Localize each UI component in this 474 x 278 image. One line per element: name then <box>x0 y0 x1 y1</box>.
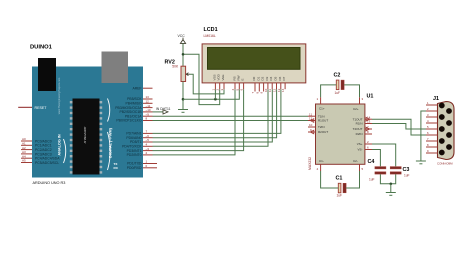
wire VS- to C4 <box>372 150 380 167</box>
U1 right pin numbers <box>367 115 371 149</box>
svg-text:www.TheEngineeringProjects.com: www.TheEngineeringProjects.com <box>58 78 61 114</box>
svg-text:C1: C1 <box>336 176 343 182</box>
capacitor C3 <box>390 167 409 178</box>
U1 left pin stubs <box>308 116 316 132</box>
wire ground rail to VSS and RW <box>183 89 239 99</box>
svg-text:1uF: 1uF <box>404 174 410 178</box>
svg-text:C1-: C1- <box>319 159 324 163</box>
svg-text:C2: C2 <box>334 73 341 79</box>
wire VS+ to C3 <box>372 144 396 166</box>
svg-text:1uF: 1uF <box>335 91 341 95</box>
wire pin2 to LCD RS <box>153 89 236 155</box>
bracket arc analog <box>64 139 66 163</box>
wire reset (red) <box>18 106 32 108</box>
svg-text:DUINO1: DUINO1 <box>30 45 53 51</box>
ground below J1 <box>416 161 426 164</box>
LCD pin numbers <box>211 88 285 93</box>
svg-text:C4: C4 <box>368 159 375 165</box>
arduino right pin stubs <box>143 88 157 168</box>
U1 transmitter out triangles <box>366 117 370 130</box>
svg-text:VCC: VCC <box>178 34 186 38</box>
svg-text:RESET: RESET <box>35 106 48 110</box>
LCD pin name labels <box>212 73 286 80</box>
wire pin3 to LCD E <box>153 89 244 150</box>
U1 internal pin labels <box>318 106 359 163</box>
svg-text:13: 13 <box>367 120 371 124</box>
wire C4 C3 bottoms to ground <box>380 174 395 184</box>
wire pin4 to LCD D4 <box>153 89 269 146</box>
wire C1 left to pin4 <box>321 171 339 188</box>
capacitor C2 <box>334 73 345 95</box>
wire pin6 to LCD D6 <box>153 89 277 138</box>
junction caps ground <box>390 183 393 186</box>
svg-text:50K: 50K <box>172 65 179 69</box>
wire pin10 to DHT terminal <box>153 111 164 113</box>
svg-text:LM016L: LM016L <box>204 34 216 38</box>
usb connector <box>102 52 129 84</box>
svg-text:C3: C3 <box>403 167 410 173</box>
U1 top pin stubs <box>321 97 360 104</box>
arduino left pin stubs A0-A5 <box>21 141 32 163</box>
capacitor C1 <box>336 176 347 198</box>
svg-text:1uF: 1uF <box>369 178 375 182</box>
connector J1 CONN-D9M <box>433 96 454 165</box>
svg-text:14: 14 <box>281 88 285 92</box>
svg-text:LCD1: LCD1 <box>204 27 218 33</box>
svg-text:R2IN: R2IN <box>356 132 363 136</box>
ground below RV2 <box>178 110 188 113</box>
junction VSS on ground rail <box>214 98 217 101</box>
wire C2 left to pin1 <box>321 85 337 97</box>
wire J1 pin2 to ground <box>421 111 426 161</box>
bracket arc digital top <box>108 99 110 122</box>
svg-text:C2+: C2+ <box>353 107 359 111</box>
svg-text:R1OUT: R1OUT <box>318 119 328 123</box>
U1 bottom pin stubs <box>321 164 360 171</box>
svg-text:PC5/ADC5/SCL: PC5/ADC5/SCL <box>35 161 59 165</box>
svg-text:VS-: VS- <box>357 148 362 152</box>
wire R1IN to J1 pin5 <box>372 124 426 130</box>
svg-text:12: 12 <box>309 117 313 121</box>
svg-text:10: 10 <box>309 123 313 127</box>
bracket arc digital bottom <box>108 132 111 170</box>
arduino board DUINO1 <box>30 45 143 178</box>
junction VCC branch <box>182 53 185 56</box>
svg-text:A5: A5 <box>22 159 26 163</box>
terminal IN DHT11 <box>156 107 171 114</box>
svg-text:T2IN: T2IN <box>318 125 325 129</box>
wire pin7 to LCD D7 <box>153 89 281 133</box>
svg-text:R1IN: R1IN <box>356 122 363 126</box>
svg-text:D7: D7 <box>282 76 286 80</box>
arduino right pin numbers <box>146 95 151 168</box>
wire pin5 to LCD D5 <box>153 89 273 142</box>
dc power jack <box>38 58 56 91</box>
LCD pin stubs <box>215 83 285 92</box>
wire pin9 to U1 T1IN <box>153 115 309 117</box>
wire pot bottom to ground <box>182 82 184 110</box>
U1 receiver out triangles <box>310 119 314 134</box>
svg-text:PB0/ICP1/CLKO: PB0/ICP1/CLKO <box>116 119 141 123</box>
svg-text:1uF: 1uF <box>337 194 343 198</box>
svg-text:PD0/RXD: PD0/RXD <box>127 166 142 170</box>
wire pin8 to U1 R1OUT <box>153 120 309 122</box>
U1 left pin numbers <box>309 112 313 132</box>
arduino left analog pin labels <box>35 139 60 165</box>
wire C1 right to pin5 <box>346 171 359 188</box>
capacitor C4 <box>368 159 386 182</box>
J1 pin stubs <box>426 105 438 153</box>
svg-text:PD2/INT0: PD2/INT0 <box>127 153 142 157</box>
wire C2 right to pin3 <box>344 85 359 97</box>
svg-text:CONN-D9M: CONN-D9M <box>437 161 453 165</box>
svg-text:C2-: C2- <box>353 159 358 163</box>
svg-text:IN DHT11: IN DHT11 <box>156 107 171 111</box>
svg-text:AREF: AREF <box>132 86 141 90</box>
svg-text:ARDUINO UNO R3: ARDUINO UNO R3 <box>33 181 66 185</box>
svg-text:ATMEGA328P: ATMEGA328P <box>83 126 87 143</box>
junction pot-gnd net <box>182 98 185 101</box>
svg-text:VEE: VEE <box>221 74 225 80</box>
svg-text:J1: J1 <box>433 96 439 102</box>
op-amp U1 MAX232 body <box>308 94 373 171</box>
J1 pin holes <box>439 103 452 156</box>
wire VSS down <box>214 89 216 99</box>
svg-text:E: E <box>241 78 245 80</box>
power VCC symbol <box>178 34 186 66</box>
svg-text:C1+: C1+ <box>319 106 325 110</box>
svg-text:R2OUT: R2OUT <box>318 130 328 134</box>
arduino right pin labels <box>115 86 142 170</box>
wire VCC branch to VDD <box>183 54 220 104</box>
arduino left pin numbers A0-A5 <box>22 137 26 163</box>
LCD display LCD1 <box>202 27 306 83</box>
potentiometer RV2 <box>165 59 191 81</box>
svg-text:MAX232: MAX232 <box>308 157 312 170</box>
ground below C3 C4 <box>386 193 396 196</box>
U1 right pin stubs <box>365 119 372 149</box>
atmega328 DIP chip <box>70 99 102 175</box>
wire junction down <box>390 184 392 193</box>
J1 pin numbers <box>427 101 429 153</box>
svg-text:U1: U1 <box>367 94 374 100</box>
svg-text:T2OUT: T2OUT <box>353 127 363 131</box>
svg-text:ANALOG IN: ANALOG IN <box>58 134 62 156</box>
wire T1OUT to J1 pin6 <box>372 119 426 135</box>
svg-text:VS+: VS+ <box>357 142 363 146</box>
wire pot wiper to LCD VEE <box>190 74 224 94</box>
